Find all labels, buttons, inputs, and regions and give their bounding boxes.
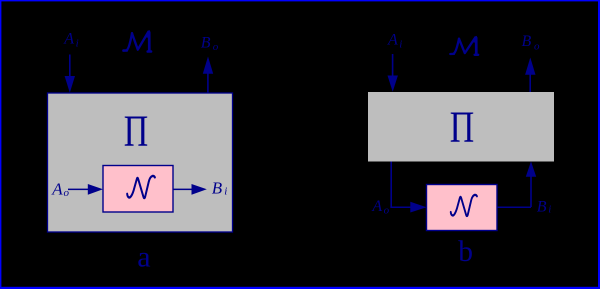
svg-text:i: i xyxy=(399,39,402,51)
svg-text:a: a xyxy=(137,240,150,273)
svg-text:A: A xyxy=(63,31,74,48)
svg-text:A: A xyxy=(387,31,398,48)
wire N to B_i arrow left xyxy=(173,184,207,195)
wire A_o arrow into N left xyxy=(68,184,103,195)
box P (plant) left diagram xyxy=(48,93,233,232)
label A_i left top xyxy=(63,31,78,50)
wire B_o arrow up out of P left xyxy=(203,57,213,94)
wire A_i arrow down into P left xyxy=(65,55,75,93)
box N (controller) right diagram xyxy=(427,185,498,231)
svg-text:o: o xyxy=(384,204,390,216)
label script N left xyxy=(127,176,155,198)
label B_i right xyxy=(537,199,552,216)
svg-text:B: B xyxy=(522,33,532,50)
box P (plant) right diagram xyxy=(368,92,554,162)
label script N right xyxy=(451,195,477,216)
box N (controller) left diagram xyxy=(103,166,173,213)
label script M right xyxy=(450,36,478,54)
svg-text:Π: Π xyxy=(124,107,148,155)
label script M left xyxy=(123,31,151,52)
label B_o right top xyxy=(522,33,541,52)
svg-text:b: b xyxy=(458,236,473,268)
svg-text:o: o xyxy=(213,41,219,53)
wire P down and into N right (A_o feed) xyxy=(390,162,426,213)
svg-text:A: A xyxy=(371,198,382,215)
svg-text:o: o xyxy=(534,40,540,52)
svg-text:B: B xyxy=(201,34,211,51)
label A_o left xyxy=(51,180,69,199)
label A_o right xyxy=(371,198,389,216)
svg-text:B: B xyxy=(537,199,547,216)
wire A_i arrow down into P right xyxy=(388,54,398,92)
wire B_o arrow up out of P right xyxy=(525,58,535,93)
label B_i left xyxy=(212,179,228,198)
label B_o left top xyxy=(201,34,219,53)
svg-text:i: i xyxy=(224,186,227,198)
svg-text:i: i xyxy=(76,38,79,50)
svg-text:B: B xyxy=(212,179,223,198)
svg-text:Π: Π xyxy=(450,103,474,151)
svg-text:i: i xyxy=(548,204,551,216)
wire N to P up arrow right (B_i feed) xyxy=(497,161,536,208)
label A_i right top xyxy=(387,31,402,50)
svg-text:A: A xyxy=(51,180,63,199)
